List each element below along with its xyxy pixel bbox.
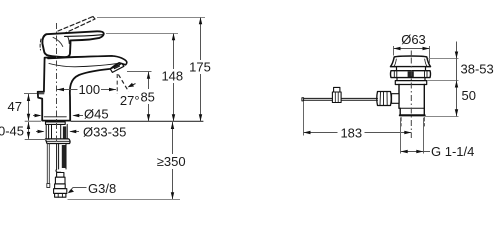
cap neck <box>397 67 426 71</box>
extension line (85) <box>127 71 152 73</box>
dimension 183 <box>304 132 412 134</box>
hidden thread dashes <box>401 118 424 127</box>
dimension 47 extension <box>24 93 37 95</box>
faucet centerline <box>56 23 58 142</box>
drain centerline <box>410 51 412 57</box>
svg-text:50: 50 <box>462 88 476 103</box>
dimension 38-53 (outside arrows) <box>456 42 458 81</box>
diameter 33-35 leader <box>36 131 79 133</box>
nut stem <box>392 94 400 104</box>
washer extension line <box>25 139 50 141</box>
svg-text:G 1-1/4: G 1-1/4 <box>431 144 474 159</box>
G3/8 connector <box>57 173 64 178</box>
body notch second line <box>38 93 44 95</box>
G 1-1/4 leader/dimension <box>401 151 430 153</box>
tail <box>400 108 424 114</box>
shank dark stud <box>63 126 66 138</box>
deck extension left <box>25 120 41 122</box>
lever inner line <box>65 35 103 37</box>
svg-text:183: 183 <box>340 126 362 141</box>
threaded shank <box>46 124 67 138</box>
dimension 100 <box>57 89 116 91</box>
extension line top (175) <box>97 17 205 19</box>
extension line (148) <box>106 33 178 35</box>
drain body <box>399 85 424 109</box>
faucet body and spout outline <box>38 56 119 121</box>
dimension >=350 <box>172 122 174 199</box>
cap skirt inner curves <box>394 59 427 66</box>
svg-text:85: 85 <box>140 90 154 105</box>
svg-text:≥350: ≥350 <box>157 154 186 169</box>
body lower seam <box>44 116 66 118</box>
dimension 63 <box>394 48 430 50</box>
spout top surface <box>48 56 127 65</box>
dimension 85 <box>148 72 150 122</box>
svg-text:Ø63: Ø63 <box>401 32 426 47</box>
svg-text:47: 47 <box>8 99 22 114</box>
handle swing arc (dashed) <box>39 39 42 50</box>
bottom reference line <box>68 199 181 201</box>
183 left extension <box>303 102 305 136</box>
diameter 45 leader <box>33 115 83 117</box>
collar <box>397 78 425 81</box>
dimension 50 <box>456 81 458 117</box>
svg-text:27°: 27° <box>120 93 140 108</box>
rod clevis <box>334 87 340 92</box>
handle lever and base <box>42 31 103 57</box>
horizontal rod <box>304 98 378 100</box>
svg-text:G3/8: G3/8 <box>88 181 116 196</box>
gasket below body <box>46 122 66 125</box>
deck line <box>71 120 203 122</box>
mounting washer <box>45 139 70 144</box>
seat slot dark <box>408 72 414 78</box>
svg-text:Ø45: Ø45 <box>84 107 109 122</box>
dimension 47 <box>28 94 30 121</box>
svg-text:148: 148 <box>161 69 183 84</box>
svg-text:38-53: 38-53 <box>461 62 494 77</box>
handle raised position (dashed lever) <box>58 17 95 35</box>
aerator <box>110 63 124 72</box>
pop-up cap <box>391 56 431 67</box>
body shoulder band <box>395 81 426 85</box>
svg-text:0-45: 0-45 <box>0 124 24 139</box>
svg-text:175: 175 <box>189 60 211 75</box>
dimension 148 <box>173 34 175 122</box>
spout inner crease <box>49 64 117 67</box>
dimension 0-45 <box>28 122 30 139</box>
seat flange <box>391 71 431 78</box>
dimension 175 <box>200 18 202 122</box>
G3/8 leader <box>69 188 87 192</box>
rod end cap <box>302 98 304 101</box>
svg-text:100: 100 <box>78 82 100 97</box>
38-53 extension ticks <box>425 59 459 117</box>
seat flange shading ticks <box>394 72 427 77</box>
svg-text:Ø33-35: Ø33-35 <box>83 125 126 140</box>
27 deg stream dashed line <box>118 75 128 92</box>
diameter 63 extension lines <box>394 46 430 63</box>
handle base inner corner <box>68 37 70 44</box>
pull rod <box>47 144 49 184</box>
G 1-1/4 extension lines <box>401 118 424 154</box>
supply hose <box>57 144 66 170</box>
handle cartridge hidden curve <box>53 37 63 46</box>
27 deg vertical dashed reference <box>116 74 118 94</box>
right view dimension texts <box>340 32 493 159</box>
27 deg leader arrow <box>130 84 136 87</box>
ball-joint nut <box>377 92 392 106</box>
left view dimension texts <box>0 60 211 196</box>
